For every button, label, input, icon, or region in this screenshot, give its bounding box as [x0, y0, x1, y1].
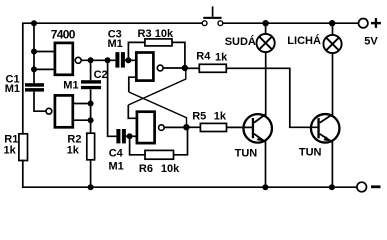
- svg-text:C4: C4: [109, 147, 124, 159]
- svg-text:R2: R2: [67, 133, 81, 145]
- NAND gate U1B (mirrored): [55, 95, 73, 127]
- lamp LICHA: [323, 35, 341, 53]
- gate U1A input stubs: [34, 52, 54, 70]
- svg-text:7400: 7400: [51, 28, 76, 42]
- junction dot U1B input 1: [88, 101, 94, 107]
- transistor Q2: [311, 114, 340, 143]
- svg-text:5V: 5V: [364, 35, 378, 47]
- junction dot C4 branch: [105, 57, 111, 63]
- wire C4 branch: [108, 60, 117, 136]
- capacitor C4: [116, 129, 126, 143]
- junction dot enable/top: [31, 20, 37, 26]
- junction dot Q1 emitter/bottom rail: [262, 184, 268, 190]
- svg-text:SUDÁ: SUDÁ: [225, 35, 256, 48]
- bottom rail (minus): [23, 186, 357, 188]
- resistor R6 body: [145, 150, 174, 159]
- wire Q2 collector to lamp LICHA: [332, 53, 334, 116]
- svg-text:M1: M1: [5, 83, 20, 95]
- svg-text:LICHÁ: LICHÁ: [287, 34, 321, 47]
- resistor R2 body: [87, 133, 95, 160]
- wire Q1 collector to lamp SUDA: [265, 52, 267, 116]
- lamp SUDA: [257, 34, 275, 52]
- wire U1C output to node: [163, 67, 185, 69]
- capacitor C3: [115, 52, 125, 68]
- wire Q2 emitter to bottom rail: [331, 141, 333, 188]
- wire cross-couple B (U1C input to U1D output): [129, 92, 187, 127]
- wire C4 to U1D input: [126, 135, 137, 137]
- push button: [202, 6, 223, 25]
- U1D upper input bracket: [128, 105, 136, 118]
- junction dot U1A input 1: [31, 49, 37, 55]
- junction dot U1A input 2: [31, 66, 37, 72]
- wire top rail: button to +5V terminal: [223, 22, 359, 24]
- transistor Q1: [243, 114, 272, 143]
- wire top-left: button to left rail and down to R1: [23, 23, 203, 134]
- wire lamp SUDA to top rail: [265, 23, 267, 34]
- svg-text:M1: M1: [63, 80, 78, 92]
- junction dot Q2 emitter/bottom rail: [329, 184, 335, 190]
- capacitor C1: [25, 83, 44, 91]
- wire clock net U1A out to C3: [81, 59, 136, 61]
- resistor R4 body: [199, 64, 226, 72]
- junction dot SUDA/top rail: [262, 20, 268, 26]
- wire R6 left lead: [130, 136, 145, 155]
- wire R3 right lead: [172, 42, 185, 66]
- svg-text:TUN: TUN: [235, 148, 258, 160]
- U1B output bubble: [46, 108, 52, 114]
- svg-text:R4: R4: [196, 51, 211, 63]
- wire R2 to bottom rail: [90, 160, 92, 187]
- wire R4 right lead to Q2 base: [226, 68, 317, 127]
- U1D output bubble: [159, 125, 165, 131]
- node enable branch wire x=34: [33, 23, 35, 83]
- svg-text:10k: 10k: [161, 163, 180, 175]
- junction dot U1D output node: [183, 124, 189, 130]
- U1A output bubble: [75, 57, 81, 63]
- junction dot LICHA/top rail: [329, 20, 335, 26]
- svg-text:C2: C2: [94, 69, 108, 81]
- junction dot U1C output node: [182, 65, 188, 71]
- wire lamp LICHA to top rail: [332, 23, 334, 35]
- svg-text:M1: M1: [109, 160, 124, 172]
- resistor R1 body: [19, 134, 28, 161]
- svg-text:R5: R5: [192, 111, 206, 123]
- resistor R3 body: [145, 39, 172, 46]
- NAND gate U1A: [55, 43, 73, 75]
- junction dot C4/R6 node: [127, 133, 133, 139]
- wire R4 left lead: [185, 67, 199, 69]
- NAND gate U1C: [136, 53, 153, 81]
- plus terminal 5V: [359, 19, 368, 28]
- capacitor C2: [90, 60, 92, 133]
- wire R5 right lead to Q1 base: [227, 126, 253, 128]
- junction dot R3/C3 node: [125, 57, 131, 63]
- svg-text:1k: 1k: [67, 145, 80, 157]
- wire Q1 emitter to bottom rail: [265, 141, 267, 188]
- svg-text:10k: 10k: [155, 28, 174, 40]
- NAND gate U1D: [137, 112, 155, 143]
- gate U1B input stubs: [74, 104, 91, 121]
- wire R3 left lead: [128, 42, 145, 58]
- wire U1D output to node: [164, 126, 186, 128]
- minus terminal: [357, 182, 367, 192]
- resistor R5 body: [200, 123, 226, 131]
- wire U1B output to C1: [34, 92, 46, 112]
- wire cross-couple A (U1D input to U1C output): [128, 68, 186, 105]
- svg-text:TUN: TUN: [299, 146, 322, 158]
- svg-text:1k: 1k: [4, 145, 17, 157]
- svg-text:1k: 1k: [215, 52, 228, 64]
- junction dot C2 branch: [88, 57, 94, 63]
- junction dot U1B input 2: [88, 117, 94, 123]
- svg-text:R3: R3: [138, 28, 152, 40]
- wire R6 right lead: [174, 129, 188, 155]
- wire R5 left lead: [186, 126, 200, 128]
- wire R1 to bottom rail: [22, 161, 24, 188]
- svg-text:R6: R6: [139, 163, 153, 175]
- svg-text:M1: M1: [108, 38, 123, 50]
- svg-text:1k: 1k: [214, 111, 227, 123]
- junction dot R2/bottom rail: [88, 184, 94, 190]
- U1C output bubble: [157, 65, 163, 71]
- U1C lower input bracket: [129, 77, 135, 92]
